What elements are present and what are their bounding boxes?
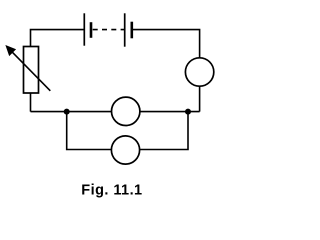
battery long plate 2 <box>124 13 126 46</box>
dashed link wire <box>93 29 125 31</box>
svg-text:Fig. 11.1: Fig. 11.1 <box>81 183 142 199</box>
wire rheostat to main wire <box>30 93 32 112</box>
junction dot left <box>64 109 70 115</box>
wire top-right (battery to corner, down to ammeter) <box>132 30 200 58</box>
junction dot right <box>185 109 191 115</box>
wire parallel branch (down, across, up) <box>67 112 188 150</box>
lamp 2 (circle on branch wire) <box>111 136 139 164</box>
battery short plate 1 <box>90 22 93 38</box>
battery B1 (two cells with dashed link) <box>84 13 132 46</box>
lamp 1 (circle on main wire) <box>112 97 140 125</box>
rheostat (variable resistor) <box>6 46 50 93</box>
wire ammeter to main node row <box>199 86 201 111</box>
wire top-left (left riser + top run to battery) <box>31 30 85 47</box>
ammeter (circle) <box>185 58 213 86</box>
battery short plate 2 <box>131 22 134 39</box>
wire main horizontal run <box>31 111 200 113</box>
battery long plate 1 <box>83 13 85 45</box>
